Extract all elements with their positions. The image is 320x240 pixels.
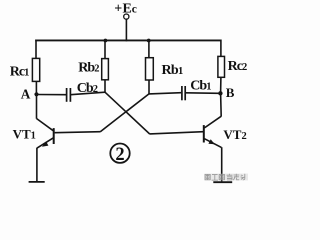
wire Rb2 to foot junction: [104, 80, 106, 93]
wire VT1 collector from node A down: [36, 94, 38, 118]
svg-text:Rb2: Rb2: [78, 60, 99, 75]
watermark hanzi char 2: [212, 175, 218, 181]
wire VT1 collector diagonal: [37, 119, 54, 131]
node junction dot Rb1 top on bus: [147, 39, 151, 43]
wire bus to Rb2: [104, 41, 106, 59]
svg-text:Rc1: Rc1: [10, 65, 29, 80]
wire node A to Cb2 left plate: [37, 94, 67, 96]
wire cross-coupling diagonal Rb2 foot to VT2 base: [105, 92, 150, 134]
node A junction dot: [34, 92, 38, 96]
wire cross-coupling diagonal Rb1 foot to VT1 base: [100, 94, 149, 132]
svg-text:+Ec: +Ec: [114, 1, 137, 16]
svg-text:Rb1: Rb1: [162, 63, 184, 78]
svg-text:Rc2: Rc2: [228, 59, 247, 74]
resistor Rb2: [102, 59, 109, 80]
wire Rb1 foot to Cb1 left plate: [149, 93, 181, 94]
capacitor Cb2: [67, 88, 71, 102]
capacitor Cb1: [182, 86, 185, 100]
node B junction dot: [218, 91, 222, 95]
svg-text:Cb2: Cb2: [77, 81, 98, 96]
svg-text:B: B: [226, 85, 235, 100]
wire VT2 base line: [150, 132, 204, 134]
wire VT1 emitter down to ground: [36, 148, 38, 182]
wire Cb2 right plate to Rb2 foot junction: [71, 92, 105, 95]
wire Rc1 to node A: [35, 81, 37, 94]
ground left: [29, 181, 45, 183]
wire VT2 emitter diagonal: [204, 139, 221, 148]
watermark hanzi char 6: [241, 174, 245, 180]
resistor Rb1: [146, 58, 154, 80]
svg-text:2: 2: [115, 145, 124, 165]
svg-text:A: A: [21, 87, 31, 102]
ground right: [213, 181, 232, 183]
resistor Rc1: [32, 58, 39, 81]
wire Cb1 right plate to node B: [185, 92, 218, 95]
resistor Rc2: [218, 56, 225, 77]
arrow VT1 emitter arrowhead: [42, 141, 49, 146]
wire right drop from bus to Rc2: [220, 40, 222, 57]
node junction dot Rb2 top on bus: [104, 39, 108, 43]
watermark hanzi text block: [204, 174, 248, 181]
wire +Ec terminal to bus: [125, 19, 127, 41]
watermark hanzi char 5: [233, 174, 239, 180]
wire top supply bus: [35, 39, 221, 41]
transistor VT2 base bar: [203, 125, 205, 142]
power terminal +Ec circle: [124, 14, 129, 19]
wire bus to Rb1: [148, 41, 150, 58]
figure number circled 2: [110, 144, 129, 165]
watermark hanzi char 4: [227, 174, 233, 180]
watermark hanzi char 3: [219, 174, 224, 179]
watermark hanzi char 1: [205, 174, 210, 179]
wire left drop from bus to Rc1: [35, 40, 37, 59]
wire VT2 collector diagonal: [204, 116, 221, 128]
arrow VT2 emitter arrowhead: [208, 139, 214, 144]
wire VT1 base line: [55, 132, 101, 133]
wire Rc2 to node B and down to VT2 collector: [220, 77, 223, 116]
wire VT2 emitter down to ground: [221, 147, 223, 181]
svg-text:Cb1: Cb1: [190, 78, 211, 93]
wire VT1 emitter diagonal: [37, 138, 53, 148]
transistor VT1 base bar: [53, 128, 55, 144]
wire Rb1 to foot junction: [148, 80, 150, 94]
